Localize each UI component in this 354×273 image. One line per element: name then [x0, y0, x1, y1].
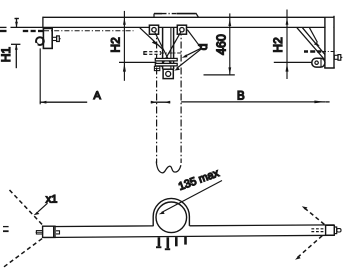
- left end nub centre line: [36, 231, 43, 233]
- label x1 arrowhead: [34, 211, 40, 215]
- far left end dash upper: [3, 226, 9, 228]
- far left end dash lower: [3, 230, 9, 232]
- dimension 460 vertical line: [229, 13, 231, 74]
- right end fitting hidden hole dashes top: [311, 228, 325, 230]
- dimension H1 top arrow shaft: [16, 18, 18, 27]
- left end nub: [36, 231, 42, 234]
- pole diameter leader arrowhead: [182, 54, 188, 58]
- dimension B right arrowhead: [314, 101, 325, 104]
- centre bracket bottom bolt circle: [166, 71, 171, 76]
- left clamp eye notch: [34, 43, 37, 46]
- right clamp side bolt tip: [341, 56, 343, 58]
- clamp axis reference line crossing H2 left: [119, 61, 156, 63]
- centre clamp axis chain line: [160, 52, 183, 54]
- swing ray upper right: [305, 208, 326, 225]
- centre channel right edge: [173, 28, 175, 69]
- centre clamp lower band: [155, 63, 177, 66]
- right end fitting hidden hole dashes bottom: [311, 231, 325, 233]
- wall strap dash on bottom chord far left: [0, 26, 7, 28]
- dimension B tail: [326, 101, 330, 103]
- right clamp hidden bolt dashes: [304, 50, 321, 53]
- dimension H1 top arrowhead: [15, 22, 18, 27]
- brace diagonal right bolt to clamp: [161, 32, 181, 67]
- dimension B line: [181, 101, 325, 103]
- dimension H1 top arrow tick: [15, 18, 19, 20]
- svg-text:H2: H2: [109, 37, 123, 53]
- left end fitting box: [43, 226, 55, 237]
- clamp stud 2: [167, 237, 170, 248]
- pole width leader left diagonal: [140, 28, 164, 50]
- wall strap hidden bolt dashes far left: [0, 30, 43, 32]
- clamp stud 3: [175, 237, 178, 246]
- right clamp side bolt head: [338, 55, 341, 61]
- centre bracket top strap: [154, 13, 196, 15]
- centre clamp hidden bolt dashed top: [144, 51, 161, 53]
- swing ray lower left: [4, 238, 44, 267]
- extension line below left clamp: [39, 48, 41, 104]
- dimension H2 left top arrowhead: [123, 18, 126, 25]
- dimension A line left segment: [40, 101, 87, 103]
- centre channel inner edge: [170, 28, 172, 69]
- right bracket post white fill: [326, 18, 334, 68]
- right clamp axis reference line: [274, 61, 312, 63]
- arrowhead on left leader: [152, 41, 158, 46]
- swing ray upper right arrowhead: [302, 206, 308, 210]
- dimension 460 top arrowhead: [228, 19, 231, 26]
- centre bracket right bolt plate: [177, 25, 186, 34]
- left clamp side bolt head: [57, 36, 60, 42]
- dimension 460 bottom reference line: [204, 74, 235, 76]
- lower view beam top edge left segment: [44, 225, 154, 228]
- pole diameter leader with arrow: [185, 48, 202, 56]
- lower view clamp arch: [153, 198, 189, 226]
- dimension A left arrowhead: [40, 101, 47, 104]
- beam left end vertical edge: [42, 17, 44, 28]
- right end washer: [334, 227, 336, 234]
- svg-text:d: d: [196, 44, 210, 51]
- left clamp block body: [43, 28, 52, 48]
- label 135 max leader line: [162, 181, 223, 213]
- right bracket diagonal brace outer: [297, 28, 325, 60]
- left clamp eye tab: [42, 37, 44, 44]
- left end fitting pin bracket: [56, 231, 60, 234]
- dimension H1 bottom reference line: [11, 43, 20, 45]
- clamp stud 4: [184, 237, 187, 245]
- brace diagonal left bolt to clamp: [155, 32, 172, 65]
- centre clamp hidden bolt end cap: [144, 52, 147, 55]
- left clamp eye hole: [38, 40, 41, 43]
- right bracket leader arrowhead: [314, 42, 320, 46]
- lower view beam top edge right segment: [190, 224, 335, 227]
- lower view beam bottom edge: [44, 235, 335, 237]
- centre bracket left bolt plate: [149, 25, 158, 34]
- right clamp side bolt shank: [334, 55, 338, 59]
- dimension H1 bottom arrowhead: [15, 44, 18, 50]
- right clamp eye hole: [315, 61, 318, 64]
- dimension H2 right vertical line: [286, 10, 288, 80]
- centre clamp left nut: [154, 66, 159, 70]
- centre bracket top strap right step: [196, 13, 199, 18]
- centre bracket top strap chain overlay: [162, 13, 177, 15]
- swing ray upper left: [10, 190, 45, 227]
- centre bracket left bolt circle: [152, 28, 156, 32]
- dimension H1 bottom shaft: [15, 44, 17, 68]
- label 135 max arrowhead: [159, 211, 165, 214]
- second leader arrowhead: [174, 67, 180, 70]
- left clamp eye ring: [36, 37, 44, 45]
- dimension 460 bottom arrowhead: [228, 67, 231, 74]
- clamp stud 2 foot: [165, 248, 170, 250]
- dimension B left arrowhead: [164, 101, 170, 104]
- svg-text:H2: H2: [271, 37, 285, 53]
- swing ray lower right arrowhead: [295, 256, 301, 260]
- pole right edge chain line upper view: [180, 29, 182, 164]
- centre clamp nut hatch: [155, 67, 160, 69]
- right bracket post bottom cap: [324, 67, 335, 69]
- clamp stud 1: [158, 237, 161, 246]
- clamp stud 1 foot: [156, 246, 161, 248]
- dimension H2 right bottom arrowhead: [286, 63, 289, 71]
- second leader to channel foot: [177, 49, 201, 68]
- right bracket post left edge: [324, 18, 326, 68]
- left clamp hidden axis chain line: [44, 30, 134, 32]
- right bracket short leader: [310, 28, 318, 43]
- pole diameter leader tail to bolt: [187, 30, 201, 49]
- pole break symbol: [156, 162, 181, 173]
- svg-text:A: A: [94, 90, 102, 102]
- left end fitting inner line: [53, 226, 55, 237]
- right bracket post right edge: [333, 16, 335, 68]
- centre bracket bottom bolt plate: [163, 69, 173, 78]
- right clamp eye washer line: [320, 58, 322, 67]
- centre channel left edge: [162, 28, 164, 69]
- svg-text:135 max: 135 max: [177, 167, 221, 193]
- svg-text:H1: H1: [0, 47, 13, 63]
- svg-text:460: 460: [214, 34, 228, 55]
- right end fitting box: [326, 225, 335, 235]
- lower view pole circle: [156, 202, 187, 233]
- label x1 leader: [38, 203, 48, 212]
- svg-text:x1: x1: [46, 193, 58, 205]
- top boom beam bottom chord: [11, 26, 335, 28]
- centre clamp upper band: [155, 58, 177, 61]
- left clamp side bolt tip: [59, 38, 60, 40]
- right clamp eye body: [312, 58, 325, 67]
- swing ray lower right: [298, 236, 323, 258]
- dimension H2 left vertical line: [123, 11, 125, 81]
- centre clamp hidden bolt dashed bottom: [144, 53, 161, 55]
- right clamp axis chain through post: [322, 51, 337, 53]
- centre bracket top strap left step: [153, 14, 155, 18]
- dimension H2 left bottom arrowhead: [123, 63, 126, 71]
- top boom beam top chord: [43, 16, 335, 18]
- right end nub: [337, 229, 341, 232]
- right bracket diagonal brace inner: [303, 28, 325, 55]
- dimension A right arrowhead: [151, 101, 157, 104]
- pole left edge chain line upper view: [156, 29, 158, 164]
- dimension A right segment: [151, 101, 170, 103]
- centre bracket right bolt circle: [180, 28, 184, 32]
- dimension H2 right top arrowhead: [286, 18, 289, 25]
- svg-text:B: B: [237, 91, 245, 103]
- left clamp side bolt shank: [52, 37, 56, 40]
